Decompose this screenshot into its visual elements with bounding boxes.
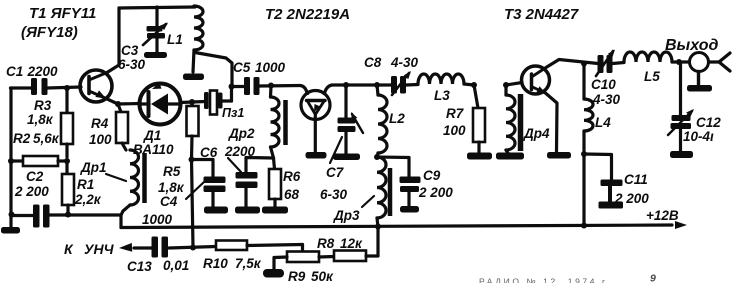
svg-text:С13: С13 xyxy=(127,259,152,274)
svg-text:R2: R2 xyxy=(13,131,31,146)
node R1 bottom junction dot xyxy=(65,212,71,218)
svg-text:2,2к: 2,2к xyxy=(74,192,102,207)
node T1 emitter junction dot xyxy=(115,101,121,107)
capacitor C8 variable plates xyxy=(391,76,397,94)
svg-text:Др3: Др3 xyxy=(333,208,360,223)
svg-text:L4: L4 xyxy=(595,115,611,130)
capacitor C12 variable xyxy=(679,62,682,116)
resistor R6 xyxy=(274,158,275,169)
diode D1 varicap xyxy=(140,84,181,125)
wire K UNCH arrow xyxy=(119,243,132,252)
inductor L1 xyxy=(194,6,203,50)
wire C5 to T2 base xyxy=(260,84,301,88)
wire T3 emitter to ground xyxy=(546,94,557,153)
node C11 rail junction dot xyxy=(581,223,587,229)
resistor R3 xyxy=(65,88,68,113)
svg-text:100: 100 xyxy=(443,123,466,138)
svg-text:1,8к: 1,8к xyxy=(158,180,185,195)
ground under C9 xyxy=(400,206,419,213)
capacitor C13 plates xyxy=(152,237,159,258)
svg-text:2 200: 2 200 xyxy=(614,191,649,206)
svg-text:1000: 1000 xyxy=(142,212,173,227)
connector output jack xyxy=(679,60,689,63)
ground under R6 xyxy=(262,207,288,214)
wire bottom left to C2 xyxy=(11,214,33,217)
svg-text:68: 68 xyxy=(284,187,300,202)
wire T1 collector riser xyxy=(107,8,119,73)
wire Pz1 riser to C5 xyxy=(230,86,233,101)
ground under R9 xyxy=(263,269,284,278)
wire L1 tap to C5 node xyxy=(195,53,232,87)
node base junction dot xyxy=(64,85,70,91)
svg-text:6-30: 6-30 xyxy=(118,57,146,72)
svg-text:С1: С1 xyxy=(6,64,23,79)
wire +12V arrow xyxy=(675,221,687,229)
svg-text:(ЯFY18): (ЯFY18) xyxy=(21,24,78,41)
inductor choke Dr1 xyxy=(130,150,139,205)
resistor R8 xyxy=(319,255,334,259)
svg-text:Т3 2N4427: Т3 2N4427 xyxy=(504,6,579,23)
ground under L1 xyxy=(183,74,204,81)
svg-text:2200: 2200 xyxy=(27,64,59,79)
inductor choke Dr3 xyxy=(377,157,386,218)
wire T3 collector to C10 xyxy=(546,60,598,68)
svg-text:+12В: +12В xyxy=(646,208,679,223)
wire input stub left edge xyxy=(11,86,33,89)
node R5 bottom junction dot xyxy=(189,157,195,163)
resistor R7 xyxy=(474,85,478,108)
svg-text:0,01: 0,01 xyxy=(163,258,189,273)
wire T2 collector rail xyxy=(332,83,391,86)
capacitor C7 variable xyxy=(344,85,347,118)
capacitor C1 plates xyxy=(31,78,37,95)
svg-text:С7: С7 xyxy=(326,165,345,180)
svg-text:R8: R8 xyxy=(317,236,335,251)
transistor T3 xyxy=(522,66,550,94)
resistor R10 xyxy=(216,241,247,251)
capacitor C3 variable xyxy=(155,7,158,27)
resistor R4 xyxy=(118,104,121,112)
svg-text:1000: 1000 xyxy=(255,60,286,75)
svg-text:С8: С8 xyxy=(364,55,382,70)
node L4 junction dot xyxy=(581,61,587,67)
capacitor C9 xyxy=(377,157,409,179)
inductor L4 xyxy=(582,64,585,100)
ground under T3 emitter xyxy=(547,152,571,159)
transistor T1 xyxy=(80,70,112,102)
node C13 R10 junction dot xyxy=(190,245,196,251)
svg-text:Т1 ЯFY11: Т1 ЯFY11 xyxy=(29,5,96,22)
svg-text:4-30: 4-30 xyxy=(390,55,419,70)
wire L4 riser to rail xyxy=(582,154,585,226)
svg-text:С12: С12 xyxy=(696,115,721,130)
svg-text:9: 9 xyxy=(650,273,656,283)
wire audio riser crossing rail xyxy=(192,160,194,248)
svg-text:С3: С3 xyxy=(121,43,139,58)
node Dr2 top junction dot xyxy=(268,83,274,89)
node L2 junction dot xyxy=(374,82,380,88)
inductor L3 xyxy=(406,83,418,87)
capacitor C5 plates xyxy=(244,77,250,95)
svg-text:С10: С10 xyxy=(591,77,616,92)
svg-text:4-30: 4-30 xyxy=(592,92,621,107)
ground under C6 xyxy=(235,207,260,214)
wire to C5 xyxy=(232,85,245,88)
node C5 left junction dot xyxy=(229,84,235,90)
svg-text:R6: R6 xyxy=(283,169,301,184)
capacitor C4 xyxy=(192,160,214,180)
node L4 bottom junction dot xyxy=(581,151,587,157)
resistor R5 xyxy=(190,103,193,106)
svg-text:С2: С2 xyxy=(26,169,44,184)
svg-text:5,6к: 5,6к xyxy=(33,131,60,146)
svg-text:Др2: Др2 xyxy=(228,126,255,141)
svg-text:R5: R5 xyxy=(163,164,181,179)
svg-text:10-4ι: 10-4ι xyxy=(683,129,714,144)
svg-text:R3: R3 xyxy=(34,98,52,113)
inductor choke Dr2 xyxy=(269,86,273,98)
svg-text:L3: L3 xyxy=(434,88,450,103)
svg-text:С4: С4 xyxy=(160,194,178,209)
node R2 left junction dot xyxy=(8,158,14,164)
svg-text:1,8к: 1,8к xyxy=(27,112,54,127)
svg-text:Пз1: Пз1 xyxy=(222,106,244,120)
inductor L2 xyxy=(377,85,378,95)
svg-text:L2: L2 xyxy=(389,111,405,126)
svg-text:R9: R9 xyxy=(288,269,306,283)
resistor R2 xyxy=(11,159,23,162)
svg-text:2 200: 2 200 xyxy=(418,185,453,200)
svg-text:РАДИО № 12, 1974 г.: РАДИО № 12, 1974 г. xyxy=(479,277,612,283)
svg-text:С11: С11 xyxy=(624,172,648,187)
wire D1 to crystal node xyxy=(181,102,206,103)
svg-text:С9: С9 xyxy=(423,168,441,183)
svg-text:2 200: 2 200 xyxy=(14,184,49,199)
wire C13 audio line xyxy=(134,246,152,249)
resistor R1 xyxy=(65,161,68,174)
transistor T2 xyxy=(300,86,308,96)
quartz crystal Pz1 xyxy=(204,92,209,109)
node Dr4 junction dot xyxy=(503,82,509,88)
svg-text:Д1: Д1 xyxy=(143,128,161,143)
ground under R7 xyxy=(467,153,492,160)
capacitor C10 variable plates xyxy=(598,55,604,73)
resistor R9 xyxy=(287,252,319,263)
wire C1 to T1 base xyxy=(48,87,82,88)
wire left rail vertical xyxy=(9,88,12,217)
ground under C12 xyxy=(670,151,693,158)
svg-text:12к: 12к xyxy=(340,236,363,251)
ground under Dr4 xyxy=(496,153,524,160)
inductor choke Dr4 xyxy=(504,85,507,95)
wire T1 emitter to D1 xyxy=(118,102,140,106)
svg-text:Др4: Др4 xyxy=(523,126,550,141)
svg-text:С5: С5 xyxy=(233,60,251,75)
svg-text:Др1: Др1 xyxy=(80,160,107,175)
ground left input xyxy=(9,212,15,218)
node output junction dot xyxy=(676,59,682,65)
svg-text:R4: R4 xyxy=(91,116,109,131)
ground under T2 emitter xyxy=(306,152,327,159)
svg-text:L5: L5 xyxy=(644,69,660,84)
node C7 junction dot xyxy=(343,82,349,88)
svg-text:R10: R10 xyxy=(203,256,228,271)
node R7 junction dot xyxy=(471,82,477,88)
svg-text:7,5к: 7,5к xyxy=(235,256,262,271)
wire Dr4 to T3 base xyxy=(506,83,522,86)
capacitor C2 plates xyxy=(33,205,40,228)
svg-text:50к: 50к xyxy=(311,269,334,283)
capacitor C11 xyxy=(584,154,612,180)
node Dr3 rail junction dot xyxy=(375,224,381,230)
node L2 Dr3 junction dot xyxy=(374,154,380,160)
svg-text:6-30: 6-30 xyxy=(320,187,348,202)
svg-text:УНЧ: УНЧ xyxy=(84,241,115,257)
svg-text:R1: R1 xyxy=(77,177,94,192)
svg-text:С6: С6 xyxy=(200,145,218,160)
node D1 right junction dot xyxy=(189,99,195,105)
svg-text:К: К xyxy=(64,241,74,257)
ground under C4 xyxy=(204,207,228,214)
svg-text:100: 100 xyxy=(89,132,112,147)
wire T1 emitter to node xyxy=(106,99,118,105)
capacitor C6 xyxy=(246,158,274,175)
ground under C7 xyxy=(333,154,360,161)
svg-text:R7: R7 xyxy=(446,106,465,121)
inductor L5 xyxy=(613,63,625,64)
svg-text:L1: L1 xyxy=(167,32,183,47)
wire bottom supply rail xyxy=(119,215,122,228)
node R3 R2 R1 junction dot xyxy=(64,158,70,164)
wire top rail to L1 xyxy=(119,7,195,8)
svg-text:Т2 2N2219А: Т2 2N2219А xyxy=(265,6,350,23)
svg-text:Выход: Выход xyxy=(665,37,718,54)
svg-text:ВА110: ВА110 xyxy=(133,142,174,157)
wire C2 to x121 xyxy=(48,213,121,216)
